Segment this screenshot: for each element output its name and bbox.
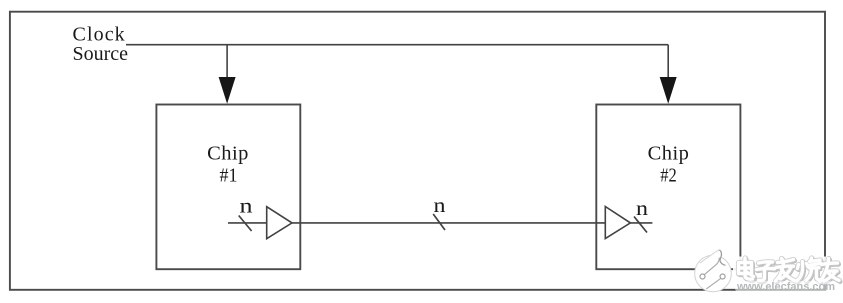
svg-text:Chip: Chip (207, 142, 249, 164)
svg-text:n: n (240, 193, 254, 217)
svg-text:Source: Source (73, 43, 129, 65)
svg-text:n: n (434, 193, 447, 217)
svg-text:Chip: Chip (648, 142, 690, 164)
svg-text:n: n (636, 196, 649, 220)
svg-text:#2: #2 (660, 164, 677, 186)
svg-text:Clock: Clock (73, 23, 126, 45)
svg-text:#1: #1 (220, 164, 238, 186)
svg-text:www.elecfans.com: www.elecfans.com (736, 281, 835, 293)
